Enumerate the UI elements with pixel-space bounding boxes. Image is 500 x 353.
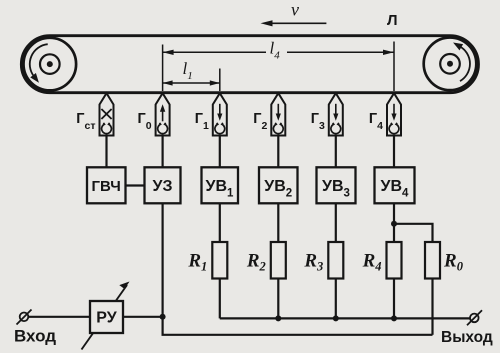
erase head Гст [76,93,113,135]
playback head Г4 [369,93,401,135]
wire Вход to РУ [28,316,90,318]
wire R1 bottom to output bus [219,279,221,319]
block УВ4 [375,167,415,203]
resistor R1 [187,242,227,279]
left pulley [24,38,77,91]
svg-text:УВ4: УВ4 [381,178,410,200]
resistor R3 [303,242,343,279]
wire РУ to node A [123,316,163,318]
wire junction to R0 top [394,224,433,242]
svg-text:Л: Л [387,12,398,29]
block РУ (level regulator) [90,301,123,333]
resistor R2 [246,242,286,279]
resistor R0 [425,242,464,279]
wire Г1 to УВ1 [219,136,221,168]
wire R0 bottom down [431,279,433,335]
svg-text:Г0: Г0 [138,111,152,132]
svg-text:R2: R2 [246,251,266,274]
svg-text:Выход: Выход [441,329,493,346]
extension line at head Г0 [162,45,164,92]
block УВ3 [317,167,356,203]
block ГВЧ (HF generator) [87,167,126,203]
svg-text:РУ: РУ [96,310,117,327]
extension line at head Г4 [393,42,395,92]
left pulley rotation arrow (counterclockwise) [30,44,48,85]
wire УВ2 to R2 [277,203,279,242]
svg-text:УВ1: УВ1 [206,178,235,200]
tape speed arrow v [261,0,327,26]
block УВ1 [202,167,239,203]
wire Г2 to УВ2 [277,136,279,168]
wire ГВЧ to УЗ [126,184,145,186]
wire УЗ down to node A [162,203,164,316]
svg-text:Вход: Вход [14,327,56,346]
block УЗ (recording amplifier) [145,167,181,203]
svg-text:R4: R4 [362,251,382,274]
wire УВ4 to R4 [393,203,395,242]
wire Гст to ГВЧ [105,136,107,168]
right pulley [424,38,477,91]
dimension line l4 [163,39,394,62]
junction dot R4-bus [391,315,397,321]
svg-text:Г1: Г1 [195,111,209,132]
wire R2 bottom to output bus [277,279,279,319]
block УВ2 [259,167,298,203]
node A junction dot [160,314,166,320]
svg-text:Г2: Г2 [253,111,267,132]
svg-text:ГВЧ: ГВЧ [92,178,121,195]
svg-text:Гст: Гст [76,111,95,132]
recording head Г0 [138,93,170,135]
output terminal Выход [441,310,493,346]
wire R4 bottom to output bus [393,279,395,319]
wire Г4 to УВ4 [393,136,395,168]
lower return bus wire [163,317,433,335]
wire Г3 to УВ3 [335,136,337,168]
svg-text:УЗ: УЗ [153,178,173,195]
output bus wire [220,317,470,319]
svg-text:УВ3: УВ3 [322,178,350,200]
playback head Г2 [253,93,285,135]
svg-text:R3: R3 [303,251,323,274]
playback head Г3 [311,93,343,135]
svg-text:R1: R1 [187,251,207,274]
svg-text:Г4: Г4 [369,111,383,132]
input terminal Вход [14,310,56,346]
wire Г0 to УЗ [162,136,164,168]
svg-text:УВ2: УВ2 [264,178,292,200]
right pulley rotation arrow (counterclockwise) [451,39,470,81]
svg-text:l1: l1 [183,59,193,82]
extension line at head Г1 [219,69,221,92]
svg-text:v: v [291,0,299,20]
junction dot R3-bus [333,315,339,321]
resistor R4 [362,242,402,279]
junction dot R2-bus [275,315,281,321]
wire УВ1 to R1 [219,203,221,242]
tape loop belt [21,36,478,93]
wire R3 bottom to output bus [335,279,337,319]
junction dot on УВ4-R4 wire [391,221,397,227]
playback head Г1 [195,93,227,135]
svg-text:R0: R0 [443,251,464,274]
wire УВ3 to R3 [335,203,337,242]
svg-text:Г3: Г3 [311,111,325,132]
regulation arrow through РУ [82,282,130,350]
dimension line l1 [163,59,220,86]
